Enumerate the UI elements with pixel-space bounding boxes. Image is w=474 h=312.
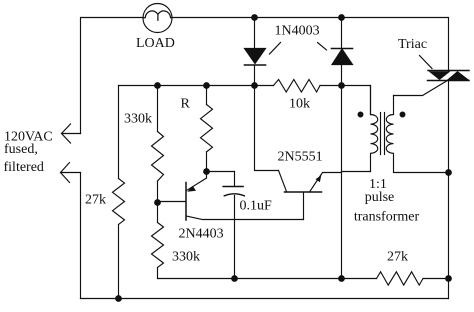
wire triac gate: [394, 81, 447, 96]
svg-text:R: R: [181, 97, 191, 112]
resistor 10k: [255, 80, 342, 93]
node dot 10k right: [339, 83, 345, 89]
lamp LOAD: [143, 4, 172, 33]
transformer T1 primary: [342, 86, 378, 172]
wire top rail right segment: [172, 18, 449, 72]
svg-text:fused,: fused,: [4, 142, 38, 157]
diode D1 1N4003 left: [245, 18, 266, 86]
svg-text:27k: 27k: [387, 250, 408, 265]
wire top rail left segment: [81, 18, 144, 134]
triac TR1: [428, 71, 470, 81]
phasing dot primary: [358, 112, 363, 117]
label pointer Triac: [420, 56, 433, 69]
svg-text:filtered: filtered: [4, 160, 44, 175]
resistor R: [201, 86, 213, 172]
arrow terminal upper 120VAC: [62, 124, 81, 143]
transistor Q1 2N4403: [158, 172, 304, 221]
arrow terminal lower 120VAC: [61, 163, 81, 183]
svg-text:LOAD: LOAD: [136, 36, 175, 51]
node dot R top: [204, 83, 210, 89]
wire column diode right down to rail: [341, 86, 343, 279]
wire right rail: [448, 81, 450, 299]
label pointer 1N4003 to D2: [318, 43, 327, 51]
svg-text:2N5551: 2N5551: [278, 150, 323, 165]
wire left rail lower: [80, 173, 82, 299]
node dot bottom outer / 27k left: [116, 296, 122, 302]
node dot cap bottom / rail: [232, 276, 238, 282]
resistor 27k right (in bottom rail): [377, 272, 424, 285]
wire mid rail y85: [119, 85, 255, 87]
svg-text:pulse: pulse: [365, 190, 395, 205]
node dot top rail / diode D2: [339, 15, 345, 21]
label pointer 1N4003 to D1: [270, 43, 281, 55]
svg-text:27k: 27k: [85, 193, 106, 208]
node dot secondary / right rail: [446, 170, 452, 176]
node dot 10k left: [252, 83, 258, 89]
phasing dot secondary: [400, 112, 405, 117]
resistor 330k lower: [152, 203, 164, 279]
node dot rail / right rail: [446, 276, 452, 282]
node dot 330k top: [155, 83, 161, 89]
svg-text:10k: 10k: [289, 97, 310, 112]
resistor 27k left: [113, 86, 125, 299]
resistor 330k upper: [152, 86, 164, 203]
emitter with arrow: [310, 173, 342, 193]
svg-text:0.1uF: 0.1uF: [240, 199, 273, 214]
node dot 330k / 2N4403 base: [155, 200, 161, 206]
node dot R bottom / 2N4403 emitter: [204, 169, 210, 175]
svg-text:1N4003: 1N4003: [275, 24, 320, 39]
wire bottom inner rail: [158, 278, 449, 280]
svg-text:330k: 330k: [172, 250, 200, 265]
svg-text:transformer: transformer: [354, 210, 420, 225]
wire bottom outer: [81, 298, 449, 300]
transformer core: [381, 113, 385, 155]
capacitor C1 0.1uF: [207, 172, 245, 279]
diode D2 1N4003 right: [332, 18, 353, 86]
svg-text:330k: 330k: [124, 112, 152, 127]
transistor Q2 2N5551: [255, 86, 342, 220]
node dot column / rail: [339, 276, 345, 282]
transformer T1 secondary: [386, 96, 448, 173]
svg-text:Triac: Triac: [398, 37, 427, 52]
collector: [187, 216, 304, 220]
svg-text:2N4403: 2N4403: [179, 227, 224, 242]
emitter with arrow: [187, 172, 207, 191]
node dot top rail / diode D1: [252, 15, 258, 21]
base lead down: [303, 192, 305, 220]
